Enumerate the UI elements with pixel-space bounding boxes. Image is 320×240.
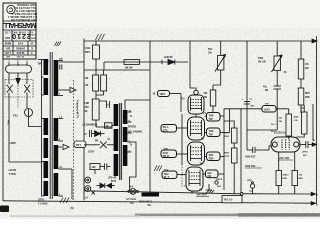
jack switch cross xyxy=(92,191,96,195)
svg-text:ZA: ZA xyxy=(284,71,287,74)
diode ZD1 xyxy=(92,131,105,137)
T1 secondary winding segments xyxy=(54,60,59,196)
svg-text:BYD: BYD xyxy=(111,180,116,183)
earth dashed lead xyxy=(17,85,19,108)
RV2 wire corner xyxy=(213,70,221,85)
valve V4 dashed enclosure xyxy=(182,164,186,186)
resistor R9 label xyxy=(225,153,230,158)
svg-text:1k8: 1k8 xyxy=(92,166,97,169)
svg-text:R6R: R6R xyxy=(225,153,230,155)
svg-text:LNE: LNE xyxy=(85,103,90,105)
potentiometer RV1 label xyxy=(258,58,287,74)
svg-text:E: E xyxy=(31,46,33,50)
svg-text:1R: 1R xyxy=(153,94,156,96)
T1 left winding segments xyxy=(44,59,49,196)
anode pill box AB4 xyxy=(203,170,224,178)
wire PL1 to grid xyxy=(170,94,182,113)
speaker jack J1 xyxy=(84,177,91,183)
svg-text:MILTON KEYNES 4: MILTON KEYNES 4 xyxy=(11,12,37,15)
svg-text:NFB: NFB xyxy=(305,93,310,95)
mains connector pins xyxy=(9,63,27,66)
chassis hatch near OT xyxy=(154,166,162,172)
mains connector pin labels 1 2 3 xyxy=(8,59,28,63)
rail x224 xyxy=(223,109,225,190)
svg-text:100k1: 100k1 xyxy=(283,175,290,177)
wire live to transformer bottom xyxy=(9,161,41,163)
resistor R11 label xyxy=(305,93,310,99)
svg-text:UNIT PRINTED: UNIT PRINTED xyxy=(17,3,36,6)
T1 core laminations xyxy=(50,52,52,199)
standby label xyxy=(88,139,111,154)
svg-text:10k 5W: 10k 5W xyxy=(125,68,134,70)
svg-text:BRT: BRT xyxy=(85,51,90,54)
svg-text:TA: TA xyxy=(200,163,203,166)
wire fuse to transformer tap xyxy=(29,117,42,127)
svg-text:TYPE: TYPE xyxy=(9,172,16,176)
svg-text:PL 102: PL 102 xyxy=(16,55,24,57)
resistor R2 pair xyxy=(93,70,107,99)
svg-text:(S): (S) xyxy=(71,207,74,210)
svg-text:17R: 17R xyxy=(163,129,168,132)
svg-text:EIA: EIA xyxy=(6,46,11,50)
border frame right xyxy=(316,36,318,204)
grid stopper notes xyxy=(271,124,276,133)
wire from switch B to fuse xyxy=(26,93,28,109)
svg-text:PV2: PV2 xyxy=(7,120,10,125)
svg-text:LAS: LAS xyxy=(5,51,11,55)
anode pill box AB2 xyxy=(205,128,230,137)
T2 secondary tap stubs xyxy=(127,112,133,152)
ground bus rail A left part xyxy=(84,191,240,194)
HT rail x247 xyxy=(246,41,248,150)
svg-text:LED/4R: LED/4R xyxy=(164,56,173,59)
coupling cap C5 xyxy=(247,146,272,153)
tail resistor R14 xyxy=(276,152,282,194)
svg-text:TZK: TZK xyxy=(209,158,214,161)
svg-text:R6R: R6R xyxy=(225,136,230,138)
svg-text:47p: 47p xyxy=(263,86,268,89)
svg-text:STR: STR xyxy=(31,37,36,39)
svg-text:TA: TA xyxy=(201,138,204,141)
svg-text:250V MK11: 250V MK11 xyxy=(139,200,153,203)
T1 heater arrow lower xyxy=(58,144,69,149)
T2 core laminations xyxy=(119,103,121,180)
potentiometer RV1 xyxy=(272,41,283,72)
grid feed rail x190 xyxy=(190,41,196,90)
svg-text:ECC83 Gn: ECC83 Gn xyxy=(274,132,286,135)
mains note dashed lead xyxy=(73,80,75,198)
svg-text:OTPL: OTPL xyxy=(38,198,45,201)
resistor R6 label xyxy=(204,93,209,99)
tail resistor R15 label xyxy=(299,175,304,180)
svg-text:BR: BR xyxy=(6,55,10,57)
output cap C6 label xyxy=(302,139,315,157)
svg-text:100k R12: 100k R12 xyxy=(245,165,256,168)
resistor R5 1k box xyxy=(105,123,114,128)
svg-text:AB: AB xyxy=(85,84,89,87)
HT feed to OT wire xyxy=(125,41,150,110)
svg-text:JPM R: JPM R xyxy=(216,179,223,181)
mains switch contact B xyxy=(24,85,30,93)
svg-text:4A: 4A xyxy=(130,186,133,189)
svg-text:C1R: C1R xyxy=(225,133,230,135)
wire to OT primary xyxy=(96,126,112,128)
svg-text:W.B.S: W.B.S xyxy=(16,51,24,55)
T1 heater arrow upper xyxy=(58,87,76,92)
mains switch dashed enclosure xyxy=(5,80,33,98)
resistor R3 tall xyxy=(92,99,99,127)
svg-text:5VR: 5VR xyxy=(164,149,169,151)
anode pill box AB1 xyxy=(205,113,225,122)
jack labels xyxy=(85,177,117,200)
screen rail x241 xyxy=(240,109,242,193)
T2 secondary segments xyxy=(123,110,128,166)
wire neutral down xyxy=(26,73,28,84)
T1 heater output wire xyxy=(63,169,72,199)
svg-text:1PA: 1PA xyxy=(85,106,90,109)
svg-text:10: 10 xyxy=(30,41,33,45)
resistor R13 label xyxy=(294,116,300,122)
fuse FS1 xyxy=(25,109,33,117)
svg-text:2210: 2210 xyxy=(12,32,31,41)
svg-text:SPKRS: SPKRS xyxy=(128,127,136,129)
svg-text:1W: 1W xyxy=(207,175,211,178)
title block small print xyxy=(7,3,37,21)
svg-text:LRD5: LRD5 xyxy=(9,141,16,145)
filter cap xyxy=(100,163,111,170)
ground symbol G1 xyxy=(206,184,215,193)
resistor R8 label xyxy=(225,133,230,138)
valve V3 phase splitter xyxy=(271,137,300,152)
HT bus rail xyxy=(84,39,317,43)
svg-text:R2R: R2R xyxy=(283,178,288,180)
border frame left xyxy=(2,3,4,201)
selector labels xyxy=(38,61,50,69)
svg-text:3-81: 3-81 xyxy=(17,41,23,45)
bottom scan smudge left xyxy=(0,206,9,213)
node wire y70 xyxy=(84,69,150,71)
wire live down xyxy=(8,73,10,84)
revision table text xyxy=(4,41,33,57)
chassis tick marks near T1 xyxy=(55,42,62,47)
svg-text:500k: 500k xyxy=(258,58,264,60)
T2 output transformer primary segments xyxy=(114,104,119,176)
standby switch contact xyxy=(100,141,107,148)
resistor R4 horizontal xyxy=(124,60,140,65)
svg-text:PL T: PL T xyxy=(164,176,170,179)
svg-text:100k: 100k xyxy=(85,47,91,50)
T1 secondary tap stubs xyxy=(58,61,63,197)
svg-text:V3A Y2R: V3A Y2R xyxy=(279,157,289,160)
standby switch wire xyxy=(84,144,114,146)
svg-text:RV2: RV2 xyxy=(208,49,213,51)
resistor R11 NFB xyxy=(298,88,304,113)
tail resistor R14 label xyxy=(283,175,290,180)
valve V4 xyxy=(186,167,203,191)
svg-text:JPD 4R: JPD 4R xyxy=(108,177,117,180)
capacitor C2 xyxy=(90,130,92,137)
svg-text:TM: TM xyxy=(38,64,41,66)
model row right cell xyxy=(31,33,36,39)
standby pill box xyxy=(74,141,86,148)
svg-text:C: C xyxy=(8,6,13,12)
output cap C6 xyxy=(300,141,317,148)
resistor R10 27k xyxy=(298,41,304,88)
heater rail x182 xyxy=(181,114,183,165)
anode pill box AB3 xyxy=(205,152,225,161)
resistor R12 label xyxy=(279,118,283,123)
copyright symbol xyxy=(7,5,15,13)
bus hatch marks xyxy=(96,34,105,40)
bottom scan streak right dark xyxy=(238,213,320,216)
svg-text:JPM1: JPM1 xyxy=(302,152,308,154)
svg-text:A: A xyxy=(73,198,75,201)
svg-text:24/8/81: 24/8/81 xyxy=(16,46,25,50)
svg-text:1M: 1M xyxy=(85,78,88,80)
mains filter block label xyxy=(139,200,153,207)
svg-text:Rx 1: Rx 1 xyxy=(271,124,276,126)
svg-text:100k R17: 100k R17 xyxy=(245,156,256,159)
pin pill box PB2 xyxy=(161,149,188,158)
svg-text:4R: 4R xyxy=(85,110,88,113)
svg-text:JU#1: JU#1 xyxy=(264,108,270,111)
potentiometer RV2 xyxy=(215,41,226,72)
svg-text:T1 50/60: T1 50/60 xyxy=(38,203,48,206)
svg-text:TW: TW xyxy=(209,134,214,137)
valve V4 cathode drop xyxy=(191,191,193,194)
svg-text:(-CHANNEL): (-CHANNEL) xyxy=(83,124,98,127)
capacitor C4 label xyxy=(263,86,269,92)
svg-text:MARSHALL: MARSHALL xyxy=(2,21,36,30)
resistor R9 xyxy=(232,143,238,194)
mains connector SK1 xyxy=(6,65,32,73)
valve V2 xyxy=(188,117,205,140)
mains voltage selector wire xyxy=(59,61,85,63)
title block outline xyxy=(3,3,36,59)
mains filter block xyxy=(142,193,160,197)
dropper wire y62 xyxy=(104,62,188,70)
electrolytic C9 xyxy=(242,98,256,107)
node label R12 xyxy=(245,165,262,168)
channel note xyxy=(83,124,98,127)
svg-text:N.Y ELSTREE HOUSE 1: N.Y ELSTREE HOUSE 1 xyxy=(7,15,37,18)
valve V3a xyxy=(188,142,205,165)
svg-text:1M LIN: 1M LIN xyxy=(258,61,266,63)
ground bus rail A right part xyxy=(240,192,318,196)
svg-text:HT Fuse: HT Fuse xyxy=(127,198,137,201)
tail resistor R15 xyxy=(292,152,298,194)
resistor R13 xyxy=(297,105,308,137)
preset jack JPM xyxy=(250,182,254,194)
node ring xyxy=(215,181,218,184)
HT fuse label xyxy=(127,186,137,205)
svg-text:F (mains) 4R TV: F (mains) 4R TV xyxy=(76,100,79,118)
pin pill box PB3 xyxy=(162,170,186,179)
svg-text:PR: PR xyxy=(95,140,99,142)
mains switch contact A xyxy=(7,85,13,93)
bias note xyxy=(216,179,223,188)
svg-text:DRAWN NOT B: DRAWN NOT B xyxy=(16,9,36,12)
bottom scan faint line xyxy=(10,215,140,216)
diode D1 LED xyxy=(162,59,175,64)
wire RV1 to rail xyxy=(247,129,277,131)
HT fuse FS2 xyxy=(128,189,139,195)
pin pill box PB1 xyxy=(161,125,188,133)
T1 primary feed wire xyxy=(41,59,43,196)
bottom scan streak xyxy=(135,214,320,217)
svg-text:JPM: JPM xyxy=(247,180,252,182)
svg-text:PR R: PR R xyxy=(163,155,169,158)
T2 secondary out wire xyxy=(130,142,137,190)
T2 speaker note xyxy=(128,116,142,147)
svg-text:V#A WHT: V#A WHT xyxy=(197,193,208,196)
wire AB junction xyxy=(229,109,231,121)
valve V3 ref label xyxy=(278,157,293,160)
OT top feed wires xyxy=(99,101,109,108)
svg-text:ALL RIGHTS RE: ALL RIGHTS RE xyxy=(14,6,36,9)
HT rail drop x150 lower xyxy=(149,100,151,192)
svg-text:4k65: 4k65 xyxy=(294,116,300,119)
resistor R10 label xyxy=(305,64,310,70)
surge diodes D3 D4 xyxy=(97,183,116,188)
T2 tap labels xyxy=(129,110,132,152)
T1 primary tap stubs xyxy=(38,60,44,197)
valve V1 xyxy=(188,90,204,114)
resistor R3 label xyxy=(85,103,90,113)
tag board box xyxy=(222,196,242,203)
svg-text:T1A: T1A xyxy=(130,202,135,205)
svg-text:UNIT MARSHALL BB: UNIT MARSHALL BB xyxy=(11,18,37,21)
resistor R12 xyxy=(286,109,292,139)
svg-text:LTD: LTD xyxy=(31,33,36,35)
border frame bottom rail B xyxy=(3,201,311,203)
svg-text:NEW: NEW xyxy=(4,41,11,45)
wire jack feed xyxy=(94,170,96,175)
capacitor C4 47p xyxy=(274,71,282,131)
screen pill box JU1 xyxy=(224,103,289,112)
resistor R8 xyxy=(224,121,237,143)
svg-text:R4R: R4R xyxy=(305,96,310,99)
resistor R6 xyxy=(210,85,216,112)
rail x229 xyxy=(229,121,231,133)
preset jack label xyxy=(247,180,253,192)
svg-text:1M R: 1M R xyxy=(160,93,166,96)
svg-text:FS1: FS1 xyxy=(13,114,18,118)
earth tag A label xyxy=(71,198,75,210)
left vertical rail xyxy=(83,39,85,201)
T1 label xyxy=(38,198,48,205)
speaker jack J2 xyxy=(85,186,91,192)
svg-text:TW: TW xyxy=(209,118,214,121)
potentiometer RV2 label xyxy=(208,49,213,54)
resistor R1 label xyxy=(85,47,91,54)
chassis ticks bottom xyxy=(60,198,69,204)
T1 secondary tap labels xyxy=(59,58,63,197)
svg-text:ST.BY: ST.BY xyxy=(88,152,95,154)
svg-text:615: 615 xyxy=(5,36,10,40)
svg-text:PR 1: PR 1 xyxy=(76,144,82,147)
svg-text:C1R: C1R xyxy=(225,156,230,158)
title block row lines xyxy=(3,21,36,55)
label LEAD TYPE xyxy=(9,168,17,176)
valve V4 cathode tag xyxy=(196,193,209,196)
svg-text:AT LOADING: AT LOADING xyxy=(128,130,142,133)
svg-text:WH: WH xyxy=(217,186,221,188)
wire from switch A down xyxy=(8,93,10,162)
rail B arrow xyxy=(311,202,318,207)
svg-text:TAG 0.5: TAG 0.5 xyxy=(224,199,234,202)
right rail upper xyxy=(312,104,314,141)
pill box PL1 xyxy=(158,91,170,97)
resistor R1 dropper xyxy=(93,41,100,70)
svg-text:(m): (m) xyxy=(249,190,253,192)
filter box xyxy=(90,164,100,170)
resistor R2 labels xyxy=(85,78,89,87)
earth lead arrow xyxy=(16,73,20,84)
